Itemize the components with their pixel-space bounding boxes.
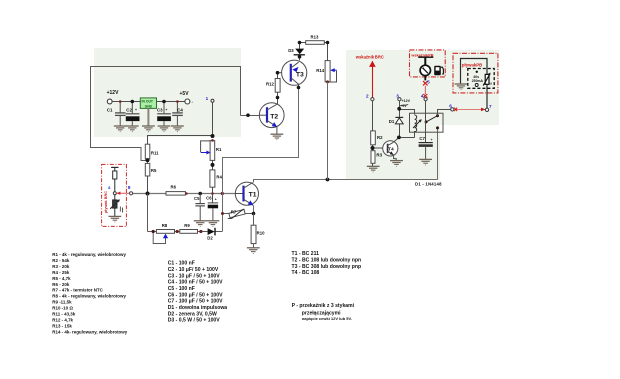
- svg-text:+: +: [135, 108, 137, 112]
- svg-text:R14: R14: [316, 68, 324, 73]
- svg-text:R4: R4: [216, 174, 222, 179]
- svg-text:C7: C7: [419, 136, 425, 141]
- svg-text:T2 - BC 108 lub dowolny npn: T2 - BC 108 lub dowolny npn: [292, 258, 362, 264]
- svg-text:D3: D3: [288, 48, 294, 53]
- svg-text:R9 -11,5k: R9 -11,5k: [52, 300, 72, 305]
- svg-text:R6: R6: [171, 184, 177, 189]
- svg-text:C2: C2: [126, 107, 132, 112]
- svg-text:+5V: +5V: [180, 91, 190, 97]
- svg-text:3: 3: [396, 94, 399, 99]
- svg-text:R12 - 4,7k: R12 - 4,7k: [52, 318, 73, 323]
- svg-text:R10 -10 Ω: R10 -10 Ω: [52, 306, 73, 311]
- svg-text:T3: T3: [296, 72, 304, 79]
- svg-text:1: 1: [206, 96, 209, 101]
- svg-text:u: u: [490, 82, 492, 86]
- svg-text:C1 - 100 nF: C1 - 100 nF: [168, 261, 195, 267]
- svg-text:C2 - 10 μF/ 50 + 100V: C2 - 10 μF/ 50 + 100V: [168, 267, 219, 273]
- svg-text:GND: GND: [145, 104, 153, 108]
- svg-text:R8: R8: [162, 223, 168, 228]
- svg-text:D1: D1: [389, 119, 395, 124]
- svg-text:T1: T1: [249, 192, 257, 199]
- svg-text:C5 - 100 nF: C5 - 100 nF: [168, 286, 195, 292]
- svg-text:+: +: [431, 138, 433, 142]
- svg-text:D1 - dowolna impulsowa: D1 - dowolna impulsowa: [168, 305, 228, 311]
- svg-text:R5 - 4,7k: R5 - 4,7k: [52, 276, 71, 281]
- svg-text:R7 - 47k - termistor NTC: R7 - 47k - termistor NTC: [52, 288, 103, 293]
- svg-text:pływak BRC: pływak BRC: [104, 191, 108, 213]
- svg-text:C3 - 10 μF / 50 + 100V: C3 - 10 μF / 50 + 100V: [168, 273, 221, 279]
- svg-text:R6 - 20k: R6 - 20k: [52, 282, 70, 287]
- svg-text:R7: R7: [231, 210, 237, 215]
- svg-text:R8 - 4k - regulowany, wielobro: R8 - 4k - regulowany, wielobrotowy: [52, 294, 126, 299]
- svg-text:IN OUT: IN OUT: [142, 100, 154, 104]
- svg-text:R2: R2: [377, 135, 383, 140]
- svg-text:C7 - 100 μF / 50 + 100V: C7 - 100 μF / 50 + 100V: [168, 299, 223, 305]
- svg-text:R1 - 4k - regulowany, wielobro: R1 - 4k - regulowany, wielobrotowy: [52, 252, 126, 257]
- svg-text:D2 - zenera 3V, 0,5W: D2 - zenera 3V, 0,5W: [168, 311, 217, 317]
- svg-text:R13 - 15k: R13 - 15k: [52, 324, 72, 329]
- svg-text:D3 - 0,5 W / 50 + 100V: D3 - 0,5 W / 50 + 100V: [168, 318, 221, 324]
- svg-text:R5: R5: [151, 168, 157, 173]
- svg-text:BRC: BRC: [375, 55, 384, 60]
- svg-text:C4: C4: [177, 108, 183, 113]
- svg-text:C5: C5: [194, 196, 200, 201]
- svg-text:8: 8: [108, 186, 110, 190]
- svg-text:napięcie cewki 12V lub 5V.: napięcie cewki 12V lub 5V.: [302, 316, 352, 321]
- svg-text:pływak: pływak: [462, 62, 477, 67]
- svg-text:D2: D2: [207, 236, 213, 241]
- svg-text:R11: R11: [151, 151, 159, 156]
- svg-text:6: 6: [449, 103, 452, 108]
- svg-text:R2 - 54k: R2 - 54k: [52, 258, 70, 263]
- svg-text:T1 - BC 211: T1 - BC 211: [292, 251, 320, 257]
- svg-text:R10: R10: [257, 231, 265, 236]
- svg-text:+12V: +12V: [402, 99, 411, 103]
- svg-text:D1 - 1N4148: D1 - 1N4148: [415, 181, 442, 186]
- svg-text:C6 - 100 μF / 50 + 100V: C6 - 100 μF / 50 + 100V: [168, 292, 223, 298]
- svg-text:+12V: +12V: [107, 90, 119, 96]
- svg-text:P - przekaźnik z 3 stykami: P - przekaźnik z 3 stykami: [292, 303, 355, 309]
- svg-text:R12: R12: [266, 82, 274, 87]
- svg-text:R11 - 43,3k: R11 - 43,3k: [52, 312, 75, 317]
- svg-text:PB: PB: [476, 62, 482, 67]
- svg-text:T4: T4: [388, 147, 394, 152]
- svg-text:C3: C3: [157, 107, 163, 112]
- svg-text:7: 7: [489, 104, 492, 109]
- svg-text:8: 8: [128, 185, 131, 190]
- svg-text:+: +: [215, 197, 217, 201]
- svg-text:R4 - 25k: R4 - 25k: [52, 270, 70, 275]
- svg-text:T3 - BC 308 lub dowolny pnp: T3 - BC 308 lub dowolny pnp: [292, 264, 362, 270]
- svg-text:C1: C1: [107, 108, 113, 113]
- svg-text:R3 - 20k: R3 - 20k: [52, 264, 70, 269]
- svg-text:R1: R1: [216, 147, 222, 152]
- svg-text:2: 2: [366, 94, 369, 99]
- svg-text:wskaźnik: wskaźnik: [355, 55, 375, 60]
- svg-text:R14 - 4k- regulowany, wielobro: R14 - 4k- regulowany, wielobrotowy: [52, 330, 127, 335]
- svg-text:R3: R3: [376, 153, 382, 158]
- svg-text:+: +: [165, 108, 167, 112]
- svg-text:T4 - BC 108: T4 - BC 108: [292, 270, 320, 276]
- svg-text:R9: R9: [184, 223, 190, 228]
- svg-text:T2: T2: [270, 113, 278, 120]
- svg-text:C4 - 100 nF / 50 + 100V: C4 - 100 nF / 50 + 100V: [168, 280, 223, 286]
- svg-text:R13: R13: [311, 35, 319, 40]
- svg-text:250mA: 250mA: [472, 79, 484, 83]
- svg-text:C6: C6: [206, 195, 212, 200]
